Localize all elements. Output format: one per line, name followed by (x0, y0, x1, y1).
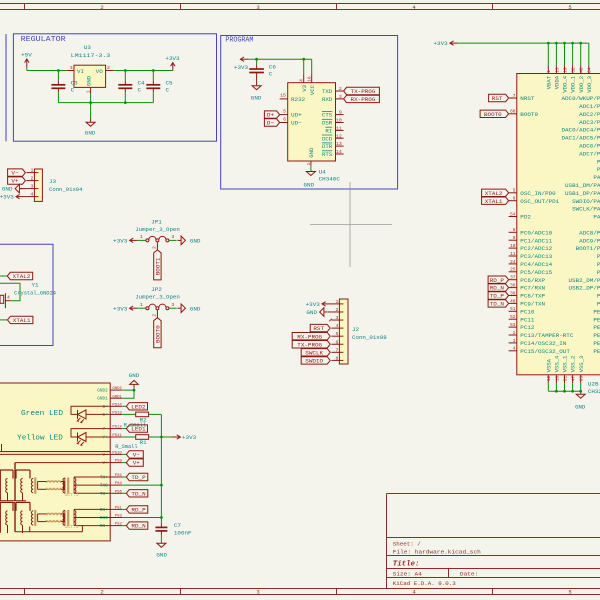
wire PS6 to TD_N (122, 492, 126, 494)
svg-text:C7: C7 (174, 522, 182, 529)
global label RD_N (MCU) (488, 284, 509, 291)
REGULATOR group box (13, 34, 216, 141)
global label XTAL2 (MCU) (482, 189, 509, 196)
svg-text:GND: GND (251, 95, 262, 102)
global label RD_P (MCU) (488, 276, 509, 283)
svg-text:52: 52 (510, 315, 516, 320)
U3 pin 3 (67, 70, 74, 72)
svg-text:JP2: JP2 (151, 286, 162, 293)
wire PS5 to TD_P (122, 476, 126, 478)
MCU pin 31 VSS_1 (564, 375, 566, 383)
svg-text:C: C (269, 71, 273, 78)
svg-text:RD_N: RD_N (490, 286, 504, 292)
ground GND (J2 pin2) (324, 311, 328, 313)
svg-text:Y-: Y- (103, 428, 108, 432)
left cropped fragment (1, 444, 3, 452)
node junction C4 bottom (124, 101, 127, 104)
svg-text:V−: V− (133, 453, 140, 459)
MCU pin 53 PC12 (509, 326, 517, 328)
U4 pin 9 CTS (336, 114, 344, 116)
resistor R2 R_Small (136, 412, 149, 417)
svg-text:SWCLK: SWCLK (305, 349, 323, 356)
hierarchical label D+ (264, 111, 279, 118)
svg-text:XTAL1: XTAL1 (13, 317, 31, 324)
svg-text:J2: J2 (352, 326, 360, 333)
transformer TX primary windings (6, 479, 8, 493)
global label LED1 (126, 425, 147, 432)
svg-text:File: hardware.kicad_sch: File: hardware.kicad_sch (393, 548, 481, 555)
node junction C3 top (57, 69, 60, 72)
wire PS2 to RD_N (122, 525, 126, 527)
svg-text:Yellow LED: Yellow LED (17, 434, 63, 442)
MCU pin 40 PC9/TXN (509, 302, 517, 304)
svg-text:1: 1 (336, 299, 339, 305)
wire PS3 center tap to bus (122, 517, 161, 519)
svg-text:3: 3 (256, 589, 259, 596)
svg-text:PC3/ADC13: PC3/ADC13 (520, 253, 552, 260)
MCU U2B CH32V307 body (517, 74, 600, 375)
svg-text:XTAL2: XTAL2 (485, 190, 503, 197)
power +3V3 (J2 pin1) (322, 303, 330, 305)
svg-text:GND: GND (2, 186, 13, 193)
global label TX-PROG (344, 87, 380, 94)
MCU pin 13 VDDA (555, 43, 557, 65)
svg-text:UD−: UD− (291, 120, 302, 127)
svg-text:53: 53 (510, 323, 516, 328)
svg-text:RXD: RXD (322, 96, 333, 103)
wire C7 to ground (160, 535, 162, 543)
svg-text:PE13: PE13 (593, 332, 600, 339)
svg-text:PC1/ADC11: PC1/ADC11 (520, 237, 552, 244)
svg-text:6: 6 (283, 116, 286, 122)
svg-text:PC7/RXN: PC7/RXN (520, 285, 545, 292)
transformer RX core (34, 510, 36, 526)
svg-text:C5: C5 (166, 79, 174, 86)
svg-text:V+: V+ (11, 178, 19, 185)
svg-text:U4: U4 (319, 168, 327, 175)
svg-text:C: C (71, 86, 75, 93)
J2 pin 7 (331, 351, 339, 353)
svg-text:2: 2 (339, 86, 342, 92)
svg-text:VCC: VCC (309, 84, 316, 95)
J1 pin PS3 RXC (110, 517, 122, 519)
MCU pin 4 PC15/OSC32_OUT (509, 350, 517, 352)
MCU pin 32 VDD_1 (572, 43, 574, 65)
svg-text:DTR: DTR (322, 143, 333, 150)
svg-text:1CT:1: 1CT:1 (65, 494, 80, 498)
svg-text:PC11: PC11 (520, 316, 535, 323)
svg-text:48: 48 (580, 67, 585, 73)
transformer RX primary windings (6, 511, 8, 525)
svg-text:+3V3: +3V3 (113, 305, 128, 312)
global label TD_P (J1) (126, 473, 148, 480)
wire JP2 pin3 to GND (169, 307, 177, 309)
wire PS9 to V+ label (122, 462, 126, 464)
svg-text:54: 54 (510, 212, 516, 217)
svg-text:PC13/TAMPER-RTC: PC13/TAMPER-RTC (520, 332, 574, 339)
svg-text:PS9: PS9 (115, 460, 123, 464)
svg-text:2: 2 (513, 331, 516, 336)
svg-text:PA15: PA15 (593, 214, 600, 221)
svg-text:VSS_3: VSS_3 (578, 356, 585, 373)
J1 pin PS1 RX+ (110, 508, 122, 510)
transformer TX output winding secondary (73, 477, 75, 493)
MCU pin 54 PD2 (509, 216, 517, 218)
MCU pin 19 VDD_4 (564, 43, 566, 65)
wire PS1 to RD_P (122, 508, 126, 510)
svg-text:PC5/ADC15: PC5/ADC15 (520, 269, 552, 276)
svg-text:GND1: GND1 (112, 395, 122, 399)
capacitor C6 (256, 59, 258, 65)
node junction VSS (571, 390, 574, 393)
node junction PS4 (160, 484, 163, 487)
MCU pin 7 NRST (509, 97, 517, 99)
ground GND (J3 pin3) (19, 188, 23, 190)
svg-text:R232: R232 (291, 96, 306, 103)
svg-text:TD_N: TD_N (490, 302, 504, 308)
wire R1 to +3V3 (149, 436, 162, 438)
MCU pin 60 BOOT0 (509, 113, 517, 115)
svg-text:47: 47 (572, 376, 577, 382)
svg-text:V+: V+ (133, 461, 140, 467)
svg-text:4: 4 (7, 295, 10, 301)
ground GND (JP2) (177, 307, 181, 309)
node junction VSS (555, 390, 558, 393)
connector J3 Conn_01x04 (34, 169, 42, 201)
hierarchical label V- (J1) (126, 451, 143, 458)
svg-text:GND: GND (304, 181, 315, 188)
svg-text:TXD: TXD (322, 88, 333, 95)
transformer TX bottom rail (0, 500, 26, 502)
svg-text:VO: VO (96, 68, 104, 75)
MCU pin 48 VDD_2 (580, 43, 582, 65)
svg-text:38: 38 (510, 284, 516, 289)
svg-text:PS6: PS6 (115, 490, 123, 494)
wire GND2 to ground (122, 389, 134, 391)
svg-text:PROGRAM: PROGRAM (225, 37, 253, 45)
transformer RX bottom rail (15, 531, 82, 533)
J1 pin PS14 G- (110, 405, 122, 407)
svg-text:TX-PROG: TX-PROG (297, 341, 322, 348)
svg-text:+3V3: +3V3 (182, 434, 197, 441)
svg-text:J3: J3 (49, 178, 57, 185)
power +3V3 (JP2) (130, 307, 138, 309)
regulator U3 LM1117-3.3 (74, 65, 106, 87)
MCU pin 63 VSS_3 (580, 375, 582, 383)
svg-text:Jumper_3_Open: Jumper_3_Open (135, 226, 180, 233)
wire MCU ground bus (548, 390, 580, 392)
svg-text:PS14: PS14 (112, 403, 122, 407)
MCU pin 3 PC14/OSC32_IN (509, 342, 517, 344)
U4 pin 1 GND (310, 161, 312, 166)
svg-text:2: 2 (107, 65, 110, 71)
wire PS13 to R2 (122, 413, 135, 415)
capacitor C4 (124, 71, 126, 81)
svg-text:13: 13 (555, 67, 560, 73)
hierarchical label D- (264, 119, 279, 126)
transformer TX output core (67, 478, 69, 494)
svg-text:1: 1 (85, 90, 91, 93)
svg-text:VDD_3: VDD_3 (586, 76, 593, 93)
MCU pin 18 VSS_4 (555, 375, 557, 383)
svg-text:ADC3/PA3: ADC3/PA3 (579, 119, 600, 126)
ground GND under C6 (256, 77, 258, 86)
svg-text:GND: GND (87, 76, 93, 87)
svg-text:PC8/TXP: PC8/TXP (520, 293, 545, 300)
wire ground bus under U3 (58, 102, 153, 104)
svg-text:DAC1/ADC5/PA5: DAC1/ADC5/PA5 (561, 135, 600, 142)
svg-text:GND2: GND2 (112, 387, 122, 391)
J1 pin PS2 RX- (110, 525, 122, 527)
svg-text:C: C (138, 86, 142, 93)
svg-text:+3V3: +3V3 (165, 55, 180, 62)
svg-text:VBAT: VBAT (545, 75, 552, 89)
svg-text:2: 2 (152, 314, 158, 317)
power +3V3 program (240, 58, 248, 60)
svg-text:RI: RI (325, 128, 332, 135)
svg-text:15: 15 (280, 93, 286, 99)
svg-text:ADC7/PA7: ADC7/PA7 (579, 150, 600, 157)
power +3V3 regulator output (172, 63, 174, 71)
svg-text:PS3: PS3 (115, 515, 123, 519)
J2 pin 5 (331, 335, 339, 337)
global label LED2 (126, 403, 147, 410)
transformer RX output core (67, 510, 69, 526)
svg-text:LED1: LED1 (131, 427, 145, 433)
U4 pin 12 DCD (336, 137, 344, 139)
wire GND1 to ground (122, 390, 134, 398)
svg-text:13: 13 (336, 141, 342, 147)
svg-text:18: 18 (555, 376, 560, 382)
global label XTAL2 (crystal) (7, 272, 32, 279)
svg-text:12: 12 (336, 133, 342, 139)
svg-text:Y+: Y+ (103, 437, 109, 441)
J2 pin 3 (331, 319, 339, 321)
global label RX-PROG (344, 95, 380, 102)
svg-text:JP1: JP1 (151, 218, 162, 225)
ground GND MCU (580, 391, 582, 394)
wire U3 GND down (90, 94, 92, 119)
transformer RX routing (0, 501, 13, 503)
svg-text:+3V3: +3V3 (434, 40, 449, 47)
svg-text:6: 6 (513, 197, 516, 202)
node junction GND2 (133, 389, 136, 392)
svg-text:1: 1 (306, 163, 312, 166)
MCU pin 39 PC8/TXP (509, 295, 517, 297)
J2 pin3 stub (329, 319, 332, 322)
svg-text:BOOT0: BOOT0 (484, 111, 502, 118)
svg-text:PC12: PC12 (520, 324, 535, 331)
svg-text:Date:: Date: (460, 571, 478, 578)
J1 pin PS4 TXC (110, 484, 122, 486)
global label TD_N (MCU) (488, 300, 509, 307)
svg-text:DAC0/ADC4/PA4: DAC0/ADC4/PA4 (561, 127, 600, 134)
J3 pin 4 (26, 196, 34, 198)
svg-text:64: 64 (588, 67, 593, 73)
svg-text:RX-PROG: RX-PROG (351, 96, 376, 103)
MCU pin 24 PC4/ADC14 (509, 263, 517, 265)
choke TX common-mode (47, 481, 61, 483)
svg-text:BOOT0: BOOT0 (520, 111, 538, 118)
crosshair marker (349, 182, 351, 267)
svg-text:GND: GND (190, 238, 201, 245)
svg-text:4: 4 (513, 347, 516, 352)
MCU pin 47 VSS_2 (572, 375, 574, 383)
wire to XTAL2 label (0, 275, 7, 277)
svg-text:RTS: RTS (322, 151, 333, 158)
svg-text:1: 1 (31, 168, 34, 174)
svg-text:R1: R1 (140, 439, 148, 446)
global label XTAL1 (MCU) (482, 197, 509, 204)
svg-text:3: 3 (70, 65, 73, 71)
J2 pin 2 (331, 311, 339, 313)
wire PS12 to LED1 (122, 428, 126, 430)
J1 pin PS13 G+ (110, 413, 122, 415)
transformer TX winding secondary (31, 479, 33, 493)
node junction U3 GND (89, 101, 92, 104)
U4 pin 14 RTS (336, 153, 344, 155)
magnetics J1 LED part body (0, 383, 110, 452)
svg-text:ADC9/PB1: ADC9/PB1 (579, 237, 600, 244)
svg-text:PC10: PC10 (520, 308, 535, 315)
svg-text:31: 31 (563, 376, 568, 382)
left cropped group box edge (5, 34, 7, 141)
svg-text:V−: V− (11, 170, 19, 177)
svg-text:RD_P: RD_P (490, 278, 504, 284)
svg-text:PD2: PD2 (520, 214, 531, 221)
svg-text:5: 5 (283, 108, 286, 114)
svg-text:VSS_1: VSS_1 (562, 355, 569, 372)
transformer RX links to choke (37, 514, 39, 522)
svg-text:SWDIO: SWDIO (305, 357, 323, 364)
svg-text:RST: RST (313, 325, 324, 332)
U4 pin 2 TXD (336, 90, 344, 92)
svg-text:PC14/OSC32_IN: PC14/OSC32_IN (520, 340, 567, 347)
svg-text:25: 25 (510, 268, 516, 273)
svg-text:U2B: U2B (588, 380, 599, 387)
svg-text:TD_P: TD_P (490, 294, 504, 300)
J1 pin GND2 GND2 (110, 389, 122, 391)
svg-text:7: 7 (513, 94, 516, 99)
wire PS10 to V- label (122, 453, 126, 455)
svg-text:ADC0/WKUP/PA0: ADC0/WKUP/PA0 (561, 95, 600, 102)
svg-text:PS12: PS12 (112, 426, 122, 430)
svg-text:GND: GND (156, 551, 167, 558)
svg-text:7: 7 (336, 347, 339, 353)
svg-text:6: 6 (336, 339, 339, 345)
connector J2 Conn_01x08 (339, 299, 348, 364)
svg-text:PA10: PA10 (593, 174, 600, 181)
J1 pin PS9 V+ (110, 462, 122, 464)
wire JP1 pin3 to GND (169, 239, 177, 241)
LED green (in J1) (71, 406, 110, 414)
svg-text:Y1: Y1 (32, 281, 40, 288)
JP1 pins (146, 239, 149, 242)
U4 pin 13 DTR (336, 145, 344, 147)
svg-text:G-: G- (103, 406, 108, 410)
global label TX-PROG (J2) (292, 341, 330, 348)
svg-text:VDDA: VDDA (554, 75, 561, 89)
svg-text:D−: D− (267, 120, 275, 127)
hierarchical label V+ (J3) (8, 177, 26, 184)
svg-text:UD+: UD+ (291, 112, 302, 119)
MCU pin 25 PC5/ADC15 (509, 271, 517, 273)
svg-text:40: 40 (510, 299, 516, 304)
global label SWCLK (J2) (301, 349, 330, 356)
node junction VSS (563, 390, 566, 393)
svg-text:PC0/ADC10: PC0/ADC10 (520, 229, 552, 236)
J1 pin PS12 Y- (110, 428, 122, 430)
svg-text:CTS: CTS (322, 112, 333, 119)
svg-text:CH32V307VCT6: CH32V307VCT6 (588, 388, 600, 395)
svg-text:5: 5 (568, 589, 571, 596)
hierarchical label V- (J3) (8, 169, 26, 176)
svg-text:G+: G+ (103, 414, 109, 418)
svg-text:VSS_2: VSS_2 (570, 356, 577, 373)
svg-text:2: 2 (100, 589, 103, 596)
power +3V3 (magnetics) (172, 436, 180, 438)
svg-text:4: 4 (336, 323, 339, 329)
svg-text:LED2: LED2 (131, 404, 145, 410)
svg-text:RD_N: RD_N (131, 524, 145, 530)
svg-text:RX-PROG: RX-PROG (297, 333, 322, 340)
svg-text:C3: C3 (71, 79, 79, 86)
MCU pin 37 PC6/RXP (509, 279, 517, 281)
svg-text:V3: V3 (301, 84, 308, 91)
svg-text:PS2: PS2 (115, 523, 123, 527)
J2 pin 1 (331, 303, 339, 305)
svg-text:8: 8 (513, 228, 516, 233)
svg-text:BOOT0: BOOT0 (155, 325, 162, 343)
svg-text:PC15/OSC32_OUT: PC15/OSC32_OUT (520, 348, 570, 355)
svg-text:3: 3 (171, 302, 174, 308)
svg-text:9: 9 (339, 110, 342, 116)
svg-text:PS5: PS5 (115, 474, 123, 478)
U3 pin 1 GND (90, 87, 92, 93)
svg-text:PS10: PS10 (112, 452, 122, 456)
node junction C5 top (152, 69, 155, 72)
wire U3 VO to +3V3 (113, 70, 172, 72)
wire vertical +3V3/filter bus (160, 414, 162, 523)
svg-text:ADC1/PA1: ADC1/PA1 (579, 103, 600, 110)
svg-text:VDD_2: VDD_2 (578, 76, 585, 93)
svg-text:2: 2 (100, 4, 103, 11)
svg-text:DCD: DCD (322, 135, 333, 142)
global label TD_P (MCU) (488, 292, 509, 299)
svg-text:51: 51 (510, 307, 516, 312)
svg-text:2: 2 (152, 246, 158, 249)
svg-text:100nF: 100nF (174, 530, 192, 537)
MCU pin 6 OSC_OUT/PD1 (509, 200, 517, 202)
svg-text:Green LED: Green LED (21, 410, 63, 418)
MCU pin 52 PC11 (509, 318, 517, 320)
svg-text:37: 37 (510, 276, 516, 281)
svg-text:4: 4 (31, 192, 34, 198)
svg-text:USB2_DM/PB6: USB2_DM/PB6 (569, 277, 600, 284)
transformer TX core (34, 478, 36, 494)
svg-text:+5V: +5V (21, 52, 32, 59)
svg-text:NRST: NRST (520, 95, 535, 102)
J1 V+ feed line (15, 462, 110, 464)
svg-text:+3V3: +3V3 (234, 64, 249, 71)
svg-text:PC4/ADC14: PC4/ADC14 (520, 261, 552, 268)
svg-text:14: 14 (336, 149, 342, 155)
node junction PS3 (160, 516, 163, 519)
wire PS11 to R1 (122, 436, 135, 438)
node junction R1/+3V3 (160, 436, 163, 439)
svg-text:SWCLK/PA14: SWCLK/PA14 (572, 206, 600, 213)
svg-text:+3V3: +3V3 (0, 194, 14, 201)
